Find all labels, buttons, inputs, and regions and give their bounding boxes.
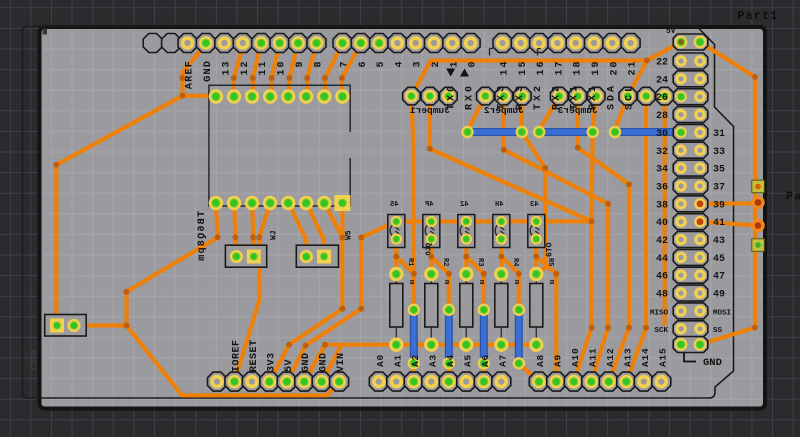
svg-text:34: 34 bbox=[656, 165, 668, 176]
svg-text:Pa: Pa bbox=[786, 191, 800, 204]
svg-text:12: 12 bbox=[240, 60, 251, 76]
resistor R2 bbox=[424, 258, 450, 352]
bottom trace vbar4 bbox=[515, 310, 523, 364]
wire LDR 5V bus bbox=[396, 219, 591, 223]
svg-text:SCL: SCL bbox=[625, 83, 636, 110]
wire jumper4 pad1 to hbar3 bbox=[615, 96, 628, 130]
svg-text:4H: 4H bbox=[495, 201, 503, 209]
LED Part1 bbox=[751, 180, 764, 209]
svg-text:A1: A1 bbox=[392, 354, 403, 367]
svg-text:42: 42 bbox=[460, 201, 468, 209]
svg-text:A2: A2 bbox=[410, 354, 421, 367]
header J6 A0-A7 bbox=[369, 354, 511, 391]
board grid bbox=[44, 31, 763, 406]
wire jumper1 mid to A10 bbox=[430, 96, 592, 382]
svg-text:A9: A9 bbox=[552, 354, 563, 367]
svg-text:45: 45 bbox=[713, 254, 725, 265]
jumper W2 left bbox=[45, 315, 86, 337]
svg-text:31: 31 bbox=[713, 129, 725, 140]
LED Part2 bbox=[751, 219, 764, 252]
wire 5V pad to LDR bus bbox=[287, 222, 396, 382]
svg-text:TX2: TX2 bbox=[533, 83, 544, 110]
wire jumper1 pad1 drop bbox=[411, 96, 413, 274]
wire divider 3 junction bbox=[466, 239, 484, 310]
wire pin9 to IC pin5 bbox=[289, 43, 298, 97]
svg-text:A8: A8 bbox=[535, 354, 546, 367]
svg-text:A13: A13 bbox=[622, 347, 633, 367]
svg-text:SS: SS bbox=[713, 327, 723, 335]
solder jumper Jumper1 bbox=[403, 87, 458, 116]
svg-text:TB6Q8pm: TB6Q8pm bbox=[197, 211, 208, 262]
LDR LDR5 bbox=[528, 201, 545, 248]
svg-text:30: 30 bbox=[656, 129, 668, 140]
svg-text:40: 40 bbox=[656, 218, 668, 229]
svg-text:6: 6 bbox=[358, 60, 369, 68]
svg-text:RX2: RX2 bbox=[551, 83, 562, 110]
wire divider 2 junction bbox=[431, 239, 449, 310]
wire 5V right rail bbox=[700, 42, 755, 345]
LDR LDR4 bbox=[493, 201, 510, 248]
svg-text:28: 28 bbox=[656, 111, 668, 122]
svg-text:10: 10 bbox=[277, 60, 288, 76]
svg-text:A6: A6 bbox=[480, 354, 491, 367]
svg-text:Acc1: Acc1 bbox=[29, 349, 39, 371]
bottom trace vbar1 bbox=[410, 310, 418, 364]
svg-text:RESET: RESET bbox=[249, 339, 260, 372]
svg-text:GND: GND bbox=[301, 352, 312, 372]
solder jumper Jumper2 bbox=[477, 87, 532, 116]
wire jumper3 pad1 to hbar2 bbox=[539, 96, 559, 130]
wire divider 4 junction bbox=[501, 239, 519, 310]
svg-text:24: 24 bbox=[656, 75, 668, 86]
solder jumper Jumper4 bbox=[619, 87, 673, 105]
wire bar1 bottom to A2 bbox=[412, 363, 416, 381]
svg-text:R4: R4 bbox=[511, 258, 519, 266]
resistor R5 bbox=[529, 258, 555, 352]
svg-text:AREF: AREF bbox=[184, 60, 196, 89]
svg-text:A3: A3 bbox=[427, 354, 438, 367]
resistor R1 bbox=[389, 258, 415, 352]
header J7 A8-A15 bbox=[529, 347, 671, 391]
LDR LDR1 bbox=[388, 201, 405, 248]
bottom trace hbar1 bbox=[468, 128, 522, 136]
wire jumper2 pad3 to hbar1 bbox=[520, 96, 525, 130]
svg-text:WJ: WJ bbox=[270, 230, 279, 240]
wire GND pad2 to bus bbox=[322, 345, 342, 382]
svg-text:TX0: TX0 bbox=[446, 83, 457, 110]
svg-text:SCK: SCK bbox=[654, 327, 668, 335]
svg-text:SDA: SDA bbox=[606, 83, 617, 110]
svg-text:14: 14 bbox=[500, 60, 511, 76]
svg-text:6TO: 6TO bbox=[546, 242, 555, 257]
header J3 14-21 bbox=[493, 34, 640, 76]
svg-text:RX0: RX0 bbox=[465, 83, 476, 110]
wire jumper2 pad1 to hbar1 bbox=[468, 96, 486, 130]
svg-text:9: 9 bbox=[295, 60, 306, 68]
svg-text:5V: 5V bbox=[284, 359, 295, 372]
svg-text:TX1: TX1 bbox=[570, 83, 581, 110]
svg-text:47: 47 bbox=[713, 272, 725, 283]
svg-text:m: m bbox=[547, 280, 555, 284]
svg-text:OJQ: OJQ bbox=[426, 243, 434, 256]
svg-text:26: 26 bbox=[656, 93, 668, 104]
svg-text:R1: R1 bbox=[406, 258, 414, 266]
svg-text:m: m bbox=[512, 280, 520, 284]
vbar via pads bbox=[408, 304, 525, 370]
wire IC pin13 to W5 pad1 bbox=[288, 203, 306, 257]
wire GND bus bbox=[325, 343, 536, 347]
svg-text:46: 46 bbox=[656, 272, 668, 283]
svg-text:RX1: RX1 bbox=[588, 83, 599, 110]
svg-text:45: 45 bbox=[390, 201, 398, 209]
wire GND pad1 to bus bbox=[304, 345, 325, 382]
svg-text:3: 3 bbox=[413, 60, 424, 68]
wire pin7 to IC pin7 bbox=[325, 43, 343, 97]
svg-text:17: 17 bbox=[554, 60, 565, 76]
svg-text:TX3: TX3 bbox=[497, 83, 508, 110]
wire IC pin11 to W1 pad2 bbox=[252, 203, 254, 257]
svg-text:15: 15 bbox=[518, 60, 529, 76]
label pin26 overlay bbox=[656, 93, 668, 104]
hbar via pads bbox=[461, 126, 621, 138]
svg-text:19: 19 bbox=[591, 60, 602, 76]
svg-text:MISO: MISO bbox=[650, 309, 669, 317]
wire IC pin15 stub bbox=[325, 203, 343, 238]
label Part clipped bbox=[786, 191, 800, 204]
wire pin6 to IC pin8 bbox=[342, 43, 361, 97]
svg-text:42: 42 bbox=[656, 236, 668, 247]
svg-text:3V3: 3V3 bbox=[266, 352, 277, 372]
svg-text:8: 8 bbox=[314, 60, 325, 68]
wire jumper4 pad3 to pin26 bbox=[665, 94, 681, 99]
svg-text:GND: GND bbox=[703, 357, 722, 369]
svg-text:VIN: VIN bbox=[336, 352, 347, 372]
svg-text:44: 44 bbox=[656, 254, 668, 265]
svg-text:33: 33 bbox=[713, 147, 725, 158]
wire IC pin9 to jumper W1 loop bbox=[74, 203, 218, 326]
svg-text:A5: A5 bbox=[462, 354, 473, 367]
svg-text:41: 41 bbox=[713, 218, 725, 229]
LDR LDR2 bbox=[423, 201, 440, 248]
header J1 AREF-8 bbox=[143, 34, 326, 90]
header J5 power bbox=[208, 339, 349, 391]
svg-text:32: 32 bbox=[656, 147, 668, 158]
svg-text:7: 7 bbox=[340, 60, 351, 68]
header J4 pins 22-53 bbox=[650, 27, 731, 369]
wire jumper4 mid to A13 bbox=[626, 96, 646, 382]
svg-text:21: 21 bbox=[628, 60, 639, 76]
svg-text:39: 39 bbox=[713, 200, 725, 211]
LDR LDR3 bbox=[458, 201, 475, 248]
svg-text:4P: 4P bbox=[425, 201, 433, 209]
svg-text:m: m bbox=[477, 280, 485, 284]
silk serial pin labels bbox=[497, 83, 636, 110]
svg-text:W5: W5 bbox=[345, 230, 354, 240]
wire bottom VIN run bbox=[127, 326, 340, 396]
board origin mark bbox=[43, 29, 48, 35]
svg-text:13: 13 bbox=[221, 60, 232, 76]
wire pin10 to IC pin4 bbox=[272, 43, 280, 97]
wire pin40 to LED2 bbox=[700, 222, 758, 226]
svg-text:MOSI: MOSI bbox=[713, 309, 731, 317]
svg-text:18: 18 bbox=[573, 60, 584, 76]
svg-text:IOREF: IOREF bbox=[231, 339, 242, 372]
svg-text:36: 36 bbox=[656, 183, 668, 194]
wire jumper2 mid to A11 bbox=[504, 96, 608, 382]
svg-text:RX3: RX3 bbox=[515, 83, 526, 110]
wire GND top to IC pin1 and left loop bbox=[56, 43, 216, 326]
svg-text:4: 4 bbox=[394, 60, 405, 68]
svg-text:A0: A0 bbox=[375, 354, 386, 367]
svg-text:R2: R2 bbox=[441, 258, 449, 266]
wire pin12 to IC pin2 bbox=[234, 45, 243, 97]
wire IC pin16 to 3V3 bbox=[269, 203, 342, 382]
wire bar2 right to 5V bus bbox=[592, 132, 593, 221]
svg-text:R5: R5 bbox=[546, 258, 554, 266]
svg-text:5: 5 bbox=[376, 60, 387, 68]
svg-text:GND: GND bbox=[202, 60, 214, 82]
svg-text:A10: A10 bbox=[570, 347, 581, 367]
wire jumper3 pad3 to hbar2 bbox=[593, 96, 597, 130]
svg-text:A7: A7 bbox=[497, 354, 508, 367]
wire hbar1 right to R5 top bbox=[522, 132, 545, 274]
svg-text:1: 1 bbox=[449, 60, 460, 68]
svg-text:m: m bbox=[407, 280, 415, 284]
svg-text:Part1: Part1 bbox=[738, 10, 779, 23]
svg-text:37: 37 bbox=[713, 183, 725, 194]
header J2 7-0 bbox=[333, 34, 480, 68]
wire divider 5 junction bbox=[536, 239, 556, 382]
svg-text:Jumper1: Jumper1 bbox=[410, 105, 450, 116]
wire bar2 bottom to A4 bbox=[447, 363, 451, 381]
wire pin38 to LED1 bbox=[700, 201, 758, 206]
bottom trace hbar3 bbox=[615, 128, 681, 136]
wire 5V bus to jumper4 pad1 bbox=[628, 61, 647, 97]
svg-text:A12: A12 bbox=[605, 347, 616, 367]
wire bar4 bottom to A8 bbox=[519, 363, 539, 381]
label OLR bbox=[426, 243, 434, 256]
svg-text:R3: R3 bbox=[476, 258, 484, 266]
bottom trace vbar2 bbox=[445, 310, 453, 364]
svg-text:11: 11 bbox=[258, 60, 269, 76]
wire jumper4 pad3 drop bbox=[662, 96, 666, 324]
wire pin8 to IC pin6 bbox=[307, 43, 316, 97]
svg-text:0: 0 bbox=[468, 60, 479, 68]
wire bar3 bottom to A6 bbox=[482, 363, 486, 381]
IC U1 TB80Qm bbox=[197, 85, 350, 262]
resistor R3 bbox=[459, 258, 485, 352]
svg-text:A14: A14 bbox=[640, 347, 651, 367]
svg-text:22: 22 bbox=[656, 58, 668, 69]
svg-text:43: 43 bbox=[713, 236, 725, 247]
svg-text:43: 43 bbox=[530, 201, 538, 209]
silk TX0 RX0 arrows bbox=[446, 69, 475, 111]
bottom trace vbar3 bbox=[480, 310, 488, 364]
bottom trace hbar2 bbox=[539, 128, 593, 136]
silk header corner marks bbox=[490, 49, 542, 56]
jumper W1 bbox=[225, 230, 278, 267]
svg-text:A11: A11 bbox=[587, 347, 598, 367]
svg-text:A4: A4 bbox=[445, 354, 456, 367]
svg-text:16: 16 bbox=[536, 60, 547, 76]
wire pin11 to IC pin3 bbox=[253, 43, 261, 97]
svg-text:2: 2 bbox=[431, 60, 442, 68]
PCB board bbox=[40, 27, 766, 409]
wire IC pin14 to W5 pad2 bbox=[306, 203, 324, 257]
svg-text:m: m bbox=[442, 280, 450, 284]
wire jumper3 mid to A12 bbox=[578, 96, 629, 382]
svg-text:48: 48 bbox=[656, 290, 668, 301]
wire IC pin12 to IOREF bbox=[234, 203, 270, 382]
shield board outline bbox=[23, 27, 734, 399]
svg-text:20: 20 bbox=[609, 60, 620, 76]
svg-text:38: 38 bbox=[656, 200, 668, 211]
wire divider 1 junction bbox=[396, 239, 414, 310]
label Part1 bbox=[738, 10, 779, 23]
wire IC pin10 to W1 pad1 bbox=[234, 203, 236, 257]
svg-text:GND: GND bbox=[319, 352, 330, 372]
wire 5V bus top bbox=[411, 42, 681, 96]
svg-text:49: 49 bbox=[713, 290, 725, 301]
solder jumper Jumper3 bbox=[550, 87, 605, 116]
resistor R4 bbox=[494, 258, 520, 352]
svg-text:35: 35 bbox=[713, 165, 725, 176]
label OTP bbox=[546, 242, 555, 257]
svg-text:5V: 5V bbox=[666, 27, 676, 36]
label Acc1 mirrored bbox=[29, 349, 39, 371]
jumper W5 bbox=[296, 230, 353, 267]
svg-text:A15: A15 bbox=[657, 347, 668, 367]
